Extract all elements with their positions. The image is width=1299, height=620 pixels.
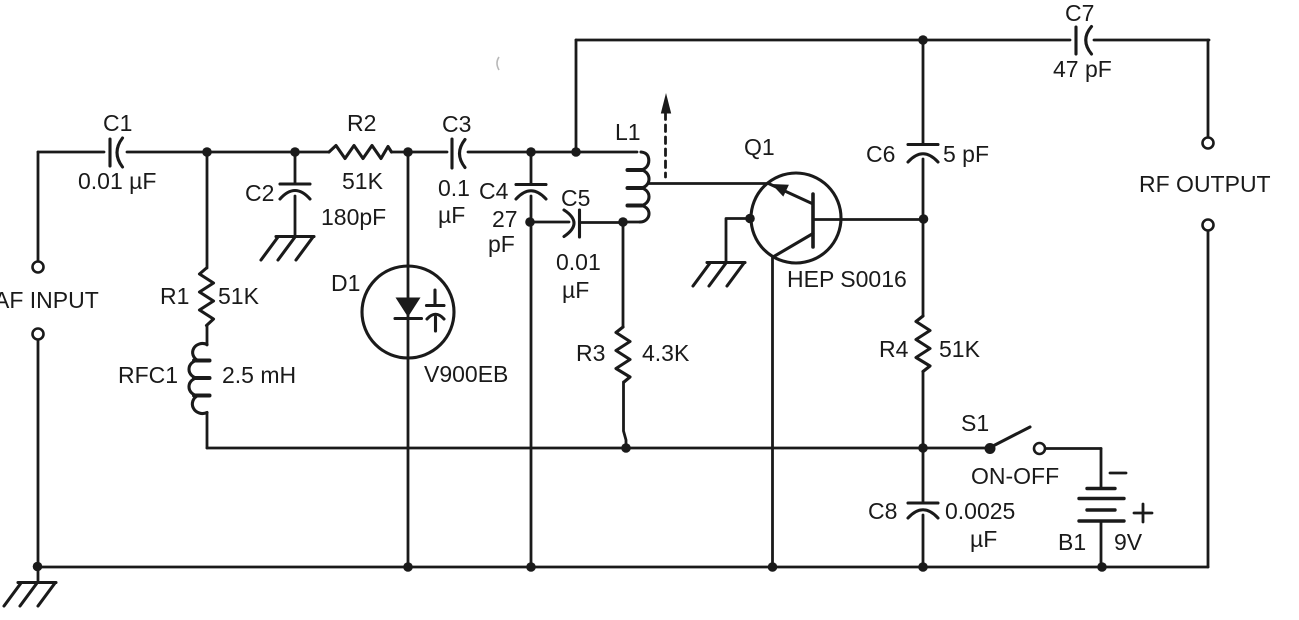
svg-text:27: 27 [492, 206, 518, 232]
svg-text:51K: 51K [342, 168, 384, 194]
node junction bottom left [33, 562, 43, 572]
node junction bottom C8 [918, 562, 928, 572]
svg-text:C5: C5 [561, 185, 590, 211]
wire top rail left segment [576, 39, 1070, 42]
svg-text:4.3K: 4.3K [642, 340, 690, 366]
svg-text:V900EB: V900EB [424, 361, 508, 387]
node junction bottom Q1 collector [768, 562, 778, 572]
svg-text:µF: µF [970, 526, 997, 552]
svg-text:0.01: 0.01 [556, 249, 601, 275]
wire C2 top lead [294, 152, 297, 183]
wire R4 top lead [922, 219, 925, 316]
svg-text:AF INPUT: AF INPUT [0, 287, 99, 313]
wire R1 top lead [206, 152, 209, 268]
svg-text:S1: S1 [961, 410, 989, 436]
capacitor C3 [438, 111, 471, 228]
capacitor C4 [479, 178, 546, 257]
node junction bottom D1 [403, 562, 413, 572]
svg-text:51K: 51K [218, 283, 260, 309]
wire D1 vertical through [407, 152, 410, 567]
wire Q1 base left to ground [726, 219, 749, 263]
node junction main rail C2 [290, 147, 300, 157]
wire bottom rail [37, 566, 1208, 569]
wire RF output lower vertical [1207, 231, 1210, 567]
wire C2 bottom lead [294, 196, 297, 236]
wire switch to battery [1046, 447, 1101, 450]
svg-text:0.1: 0.1 [438, 175, 470, 201]
svg-text:9V: 9V [1114, 529, 1143, 555]
wire main rail segment 4 [468, 151, 637, 154]
scan artifact mark [497, 57, 499, 70]
node junction mid rail R3 [621, 443, 631, 453]
node RF output upper terminal [1203, 138, 1214, 149]
ground C2 [261, 237, 314, 261]
node AF input lower terminal [33, 329, 44, 340]
svg-text:RF OUTPUT: RF OUTPUT [1139, 171, 1271, 197]
svg-text:R1: R1 [160, 283, 189, 309]
svg-text:D1: D1 [331, 270, 360, 296]
node junction main rail C4 [526, 147, 536, 157]
svg-text:C4: C4 [479, 178, 509, 204]
resistor R4 [879, 316, 981, 372]
svg-text:2.5 mH: 2.5 mH [222, 362, 296, 388]
svg-text:51K: 51K [939, 336, 981, 362]
node junction base C6 R4 [919, 214, 929, 224]
svg-text:R2: R2 [347, 110, 376, 136]
svg-text:C1: C1 [103, 110, 132, 136]
wire C5 left lead [531, 221, 569, 224]
svg-text:C8: C8 [868, 498, 897, 524]
capacitor C2 [245, 180, 310, 206]
node junction main rail top connector [571, 147, 581, 157]
wire L1 tap to Q1 emitter [649, 182, 770, 185]
wire Q1 collector vertical [771, 257, 774, 567]
wire Q1 base right to C6 R4 junction [813, 218, 924, 221]
svg-text:HEP S0016: HEP S0016 [787, 266, 907, 292]
node AF input upper terminal [33, 262, 44, 273]
svg-text:ON-OFF: ON-OFF [971, 463, 1059, 489]
wire R4 bottom lead [922, 372, 925, 449]
wire R3 top lead [622, 222, 625, 327]
wire main rail segment 2 [127, 151, 329, 154]
inductor RFC1 [118, 344, 296, 414]
resistor R1 [160, 268, 260, 326]
svg-text:µF: µF [438, 202, 465, 228]
wire AF input upper vertical [37, 152, 40, 261]
svg-text:Q1: Q1 [744, 134, 775, 160]
svg-text:0.01 µF: 0.01 µF [78, 168, 156, 194]
wire C4 top lead [530, 152, 533, 183]
diode D1 varicap [331, 266, 508, 387]
svg-text:5 pF: 5 pF [943, 141, 989, 167]
capacitor C1 [78, 110, 156, 194]
svg-text:0.0025: 0.0025 [945, 498, 1015, 524]
svg-text:L1: L1 [615, 119, 641, 145]
node junction C4 C5 [525, 217, 535, 227]
wire C5 right lead [581, 221, 623, 224]
wire C6 top lead [922, 40, 925, 144]
switch S1 [961, 410, 1059, 489]
wire RF output upper vertical [1207, 40, 1210, 137]
node junction bottom C4 [526, 562, 536, 572]
transistor Q1 [744, 134, 907, 292]
ground bottom left [4, 583, 56, 607]
svg-text:180pF: 180pF [321, 204, 386, 230]
svg-text:C2: C2 [245, 180, 274, 206]
wire RFC1 bottom lead to mid rail [206, 413, 209, 449]
antenna arrow [661, 93, 671, 177]
svg-text:pF: pF [488, 231, 515, 257]
node junction main rail D1 [403, 147, 413, 157]
node junction bottom battery [1097, 562, 1107, 572]
svg-text:RFC1: RFC1 [118, 362, 178, 388]
node RF output lower terminal [1203, 220, 1214, 231]
svg-text:C7: C7 [1065, 0, 1094, 26]
wire mid rail [207, 447, 989, 450]
wire AF input lower vertical [37, 340, 40, 567]
wire C4 lower vertical to bottom rail [530, 196, 533, 567]
inductor L1 [615, 119, 649, 222]
wire top rail right segment [1094, 39, 1209, 42]
wire R3 bottom lead [624, 382, 627, 448]
svg-text:B1: B1 [1058, 529, 1086, 555]
wire L1 bottom to junction [623, 221, 640, 224]
capacitor C6 [866, 141, 989, 167]
capacitor C8 [868, 498, 1015, 552]
wire C8 leads [922, 448, 925, 567]
wire ground stub bottom left [37, 567, 40, 582]
wire main rail segment 3 [392, 151, 448, 154]
svg-text:µF: µF [562, 277, 589, 303]
svg-text:C6: C6 [866, 141, 895, 167]
capacitor C7 [1053, 0, 1112, 82]
wire R1 to RFC1 [206, 326, 209, 346]
wire main rail segment 1 [38, 151, 104, 154]
capacitor C5 [556, 185, 601, 303]
wire C6 bottom lead [922, 159, 925, 219]
svg-text:47 pF: 47 pF [1053, 56, 1112, 82]
wire top-left vertical connector [575, 40, 578, 152]
resistor R3 [576, 327, 690, 382]
svg-text:R4: R4 [879, 336, 909, 362]
resistor R2 [321, 110, 392, 230]
node junction top rail C6 [918, 35, 928, 45]
svg-text:R3: R3 [576, 340, 605, 366]
node junction base circle edge [745, 214, 755, 224]
node junction main rail R1 [202, 147, 212, 157]
svg-text:C3: C3 [442, 111, 471, 137]
node junction C5 L1 R3 [618, 217, 628, 227]
battery B1 [1058, 449, 1152, 568]
ground Q1 base [693, 263, 745, 287]
node junction mid rail R4 C8 [918, 443, 928, 453]
